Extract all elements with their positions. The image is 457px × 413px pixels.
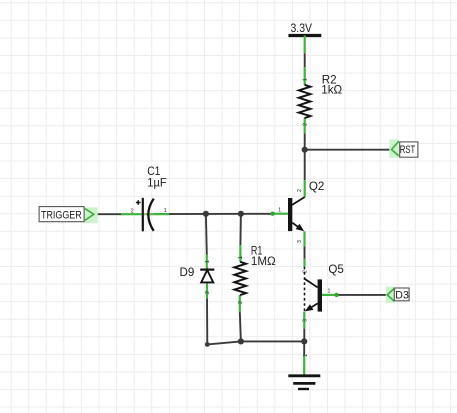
svg-text:3: 3 [303,319,309,322]
port D3 [386,287,409,303]
transistor Q2 [270,180,304,246]
junction: bottom-left rail end [205,342,210,347]
wire: Q5 emitter down to ground node [303,329,305,342]
svg-text:2: 2 [297,189,303,192]
svg-text:3: 3 [297,240,303,243]
svg-text:D3: D3 [395,290,409,302]
svg-text:2: 2 [238,301,244,304]
svg-text:TRIGGER: TRIGGER [41,209,82,221]
svg-text:Q5: Q5 [328,263,343,276]
ground [288,354,320,389]
resistor R2 [299,67,311,133]
svg-text:2: 2 [302,123,308,126]
wire: node to R1 [239,214,242,245]
svg-text:1: 1 [302,78,308,81]
resistor R1 [234,245,246,312]
port RST [389,139,418,157]
wire: ground node to ground symbol [303,341,305,356]
svg-text:1: 1 [205,260,211,263]
wire: C1 to Q2 base (through nodes) [154,213,273,215]
junction: ground node [301,338,307,344]
junction: R1 bottom node [238,338,244,344]
svg-text:1kΩ: 1kΩ [321,83,342,96]
junction: node at D9 top [203,211,209,217]
wire: RST node to RST flag [305,149,391,151]
svg-text:2: 2 [131,208,134,214]
wire: Q5 base to D3 flag [337,294,386,296]
svg-text:1: 1 [303,354,309,357]
wire: R2 to RST node [304,133,306,149]
svg-text:2: 2 [303,270,309,273]
svg-text:Q2: Q2 [309,180,324,193]
svg-text:1µF: 1µF [147,176,166,189]
svg-text:1: 1 [278,208,281,214]
svg-text:D9: D9 [180,266,195,279]
transistor Q5 [303,259,339,329]
wire: TRIGGER to C1 [94,213,123,215]
port TRIGGER [39,207,98,224]
wire: power to R2 [304,54,306,68]
svg-text:1: 1 [164,208,167,214]
junction: node at R1 top [238,211,244,217]
capacitor C1 [121,198,169,232]
wire: node to D9 [205,214,208,255]
svg-text:1: 1 [238,256,244,259]
wire: Q2 emitter to Q5 collector [304,246,306,259]
svg-text:1: 1 [328,289,331,295]
wire: R1 to bottom rail [240,312,241,342]
svg-text:2: 2 [205,291,211,294]
junction: RST node [302,147,308,153]
wire: bottom rail [207,341,304,344]
diode D9 [200,255,214,299]
svg-text:RST: RST [400,144,415,156]
wire: D9 to bottom rail [206,298,208,344]
svg-text:1MΩ: 1MΩ [251,255,276,268]
power rail 3.3V [288,22,321,54]
wire: RST node down to Q2 collector [304,150,306,181]
svg-text:3.3V: 3.3V [291,22,313,35]
